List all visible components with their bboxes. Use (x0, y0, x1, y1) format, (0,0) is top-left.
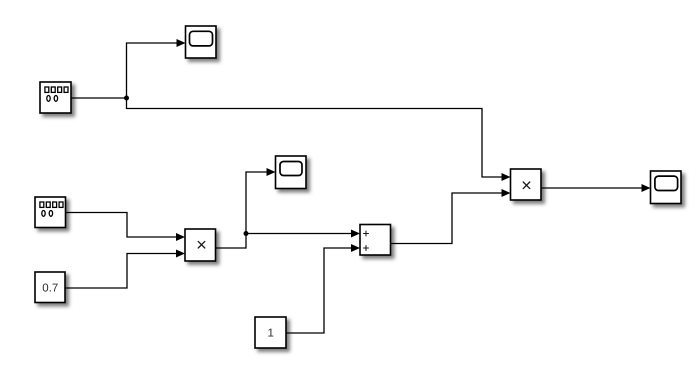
svg-text:1: 1 (267, 328, 273, 340)
svg-text:0.7: 0.7 (42, 283, 58, 295)
